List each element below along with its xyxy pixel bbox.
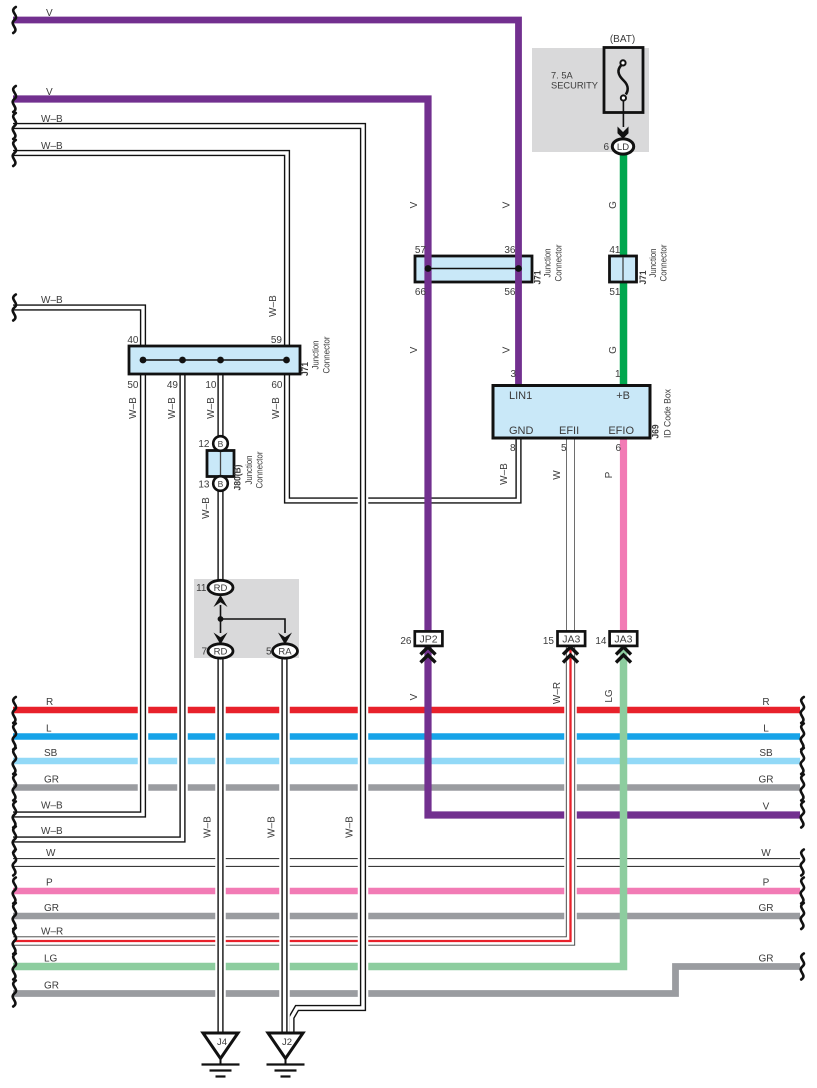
- svg-text:B: B: [218, 479, 224, 489]
- svg-text:6: 6: [603, 142, 609, 153]
- svg-text:W–B: W–B: [167, 397, 178, 419]
- svg-text:66: 66: [415, 287, 427, 298]
- svg-text:W–B: W–B: [267, 816, 278, 838]
- connector box JP2: [415, 631, 443, 646]
- svg-text:W: W: [46, 848, 56, 859]
- svg-text:W–R: W–R: [552, 682, 563, 704]
- connector circle B pin13: [213, 476, 228, 491]
- svg-text:W–B: W–B: [201, 497, 212, 519]
- svg-text:8: 8: [510, 443, 516, 454]
- svg-text:W–B: W–B: [128, 397, 139, 419]
- svg-text:7: 7: [201, 647, 207, 658]
- svg-text:LG: LG: [44, 954, 58, 965]
- rotated wire labels top: [409, 201, 619, 354]
- ground J2: [267, 1033, 305, 1077]
- wire W-B pin40 branch: [13, 308, 143, 375]
- junction connector J80(B) box: [207, 451, 234, 477]
- left bus labels: [41, 697, 63, 992]
- ID code box J69: [493, 386, 650, 439]
- svg-text:RD: RD: [214, 583, 228, 594]
- svg-text:5: 5: [561, 443, 567, 454]
- wire W from EFII: [570, 438, 572, 631]
- relay internal: arrow up pin11: [214, 595, 228, 607]
- svg-text:SB: SB: [44, 748, 58, 759]
- svg-text:V: V: [46, 8, 53, 19]
- pin numbers center J71: [415, 245, 516, 298]
- svg-text:W–B: W–B: [203, 816, 214, 838]
- svg-text:P: P: [46, 878, 53, 889]
- svg-text:Junction: Junction: [244, 456, 255, 485]
- svg-text:Junction: Junction: [543, 249, 554, 278]
- svg-text:J80(B): J80(B): [233, 465, 244, 491]
- chevrons JP2: [421, 647, 436, 663]
- wire GR bottom jog: [13, 967, 800, 994]
- connector oval RD pin11: [208, 580, 233, 594]
- svg-text:57: 57: [415, 245, 427, 256]
- wire W-B oval7 to ground J4: [220, 658, 222, 1033]
- wire P from EFIO: [620, 438, 627, 631]
- svg-text:V: V: [409, 693, 420, 700]
- svg-text:41: 41: [609, 245, 621, 256]
- pin numbers connectors: [196, 142, 609, 658]
- svg-text:56: 56: [504, 287, 516, 298]
- svg-text:GR: GR: [759, 954, 774, 965]
- svg-text:G: G: [608, 346, 619, 354]
- svg-text:(BAT): (BAT): [610, 34, 635, 45]
- svg-text:Junction: Junction: [648, 249, 659, 278]
- svg-text:10: 10: [205, 380, 217, 391]
- svg-text:3: 3: [510, 369, 516, 380]
- svg-text:50: 50: [127, 380, 139, 391]
- label W-B bus2: [41, 141, 63, 152]
- wire W-R: [13, 646, 571, 941]
- svg-text:GR: GR: [44, 775, 59, 786]
- svg-text:R: R: [46, 697, 53, 708]
- chevrons JA3 pin15: [563, 647, 578, 663]
- rotated component names: [233, 245, 674, 491]
- svg-text:V: V: [46, 87, 53, 98]
- svg-text:7. 5A: 7. 5A: [551, 71, 574, 81]
- connector box JA3 pin14: [610, 631, 638, 646]
- wire W-B top to ground J2: [13, 126, 363, 1033]
- svg-text:V: V: [502, 201, 513, 208]
- svg-text:40: 40: [127, 335, 139, 346]
- svg-text:Connector: Connector: [659, 245, 670, 282]
- svg-text:GR: GR: [44, 903, 59, 914]
- svg-text:59: 59: [271, 335, 283, 346]
- svg-text:RD: RD: [214, 647, 228, 658]
- svg-text:W–B: W–B: [345, 816, 356, 838]
- right bus labels: [759, 697, 774, 965]
- svg-text:Connector: Connector: [554, 245, 565, 282]
- fuse 7.5A SECURITY: [604, 48, 643, 128]
- svg-text:GR: GR: [759, 903, 774, 914]
- svg-text:J69: J69: [651, 425, 662, 439]
- svg-text:EFII: EFII: [559, 425, 579, 437]
- label W-B bus1: [41, 114, 63, 125]
- svg-text:60: 60: [271, 380, 283, 391]
- svg-text:G: G: [608, 201, 619, 209]
- svg-text:V: V: [502, 346, 513, 353]
- svg-text:51: 51: [609, 287, 621, 298]
- svg-text:W–B: W–B: [41, 801, 63, 812]
- svg-text:W–B: W–B: [41, 826, 63, 837]
- arrow into LD: [618, 127, 629, 139]
- junction connector J71 (center) box: [415, 256, 532, 282]
- svg-text:ID Code Box: ID Code Box: [663, 389, 674, 438]
- svg-text:13: 13: [198, 480, 210, 491]
- svg-text:49: 49: [167, 380, 179, 391]
- svg-text:5: 5: [266, 647, 272, 658]
- svg-text:W–B: W–B: [271, 397, 282, 419]
- svg-text:Connector: Connector: [322, 337, 333, 374]
- svg-text:11: 11: [196, 583, 207, 594]
- svg-text:V: V: [409, 201, 420, 208]
- svg-text:B: B: [218, 439, 224, 449]
- label V bus1: [46, 8, 53, 19]
- relay internal wire: [221, 605, 286, 633]
- svg-text:LG: LG: [604, 689, 615, 703]
- svg-text:L: L: [763, 724, 769, 735]
- svg-text:W–B: W–B: [206, 397, 217, 419]
- connector box JA3 pin15: [558, 631, 586, 646]
- svg-text:L: L: [46, 724, 52, 735]
- pin numbers right J71: [609, 245, 621, 298]
- svg-text:J4: J4: [217, 1037, 227, 1048]
- wire G green: [623, 152, 625, 387]
- connector oval RA pin5: [273, 644, 298, 658]
- junction connector J71 (right) box: [610, 256, 637, 282]
- svg-text:R: R: [762, 697, 769, 708]
- svg-text:EFIO: EFIO: [608, 425, 634, 437]
- svg-text:GR: GR: [44, 981, 59, 992]
- svg-text:Connector: Connector: [255, 452, 266, 489]
- svg-text:15: 15: [543, 636, 555, 647]
- fuse block gray background: [532, 48, 649, 152]
- svg-text:V: V: [763, 802, 770, 813]
- wire W-B pin50: [13, 346, 143, 815]
- svg-text:J71: J71: [300, 361, 311, 376]
- wire P bus: [13, 888, 800, 895]
- pin numbers left J71: [127, 335, 283, 391]
- svg-text:W–B: W–B: [268, 295, 279, 317]
- wire R bus: [13, 707, 800, 714]
- svg-text:W–B: W–B: [499, 463, 510, 485]
- svg-text:RA: RA: [278, 647, 292, 658]
- rotated wire labels lower: [203, 682, 616, 838]
- wire L bus: [13, 733, 800, 740]
- pin numbers J69: [510, 369, 622, 454]
- junction connector J71 (center) internal bus: [425, 265, 522, 272]
- svg-text:JA3: JA3: [562, 634, 580, 646]
- relay arrow down pin5: [278, 633, 292, 645]
- wire V1 battery feed: [13, 20, 519, 387]
- svg-text:Junction: Junction: [311, 341, 322, 370]
- wire GR bus 2: [13, 913, 800, 920]
- wire W-B pin49: [13, 346, 183, 840]
- svg-text:6: 6: [615, 443, 621, 454]
- relay junction dot: [218, 616, 224, 622]
- wire GR bus: [13, 784, 800, 791]
- svg-text:W: W: [552, 470, 563, 480]
- svg-text:P: P: [604, 471, 615, 478]
- svg-text:GND: GND: [509, 425, 534, 437]
- squiggle ends left: [13, 7, 16, 1007]
- svg-text:W–B: W–B: [41, 141, 63, 152]
- svg-text:JA3: JA3: [614, 634, 632, 646]
- svg-text:GR: GR: [759, 775, 774, 786]
- svg-text:14: 14: [595, 636, 607, 647]
- connector circle B pin12: [213, 436, 228, 451]
- svg-text:J2: J2: [282, 1037, 292, 1048]
- svg-text:26: 26: [400, 636, 412, 647]
- svg-text:JP2: JP2: [420, 634, 438, 646]
- svg-text:W–R: W–R: [41, 927, 63, 938]
- junction connector J71 (left) box: [129, 346, 300, 374]
- svg-text:W: W: [761, 848, 771, 859]
- connector oval RD pin7: [208, 644, 233, 658]
- relay arrow down pin7: [214, 633, 228, 645]
- chevrons JA3 pin14: [616, 647, 631, 663]
- svg-text:36: 36: [504, 245, 516, 256]
- fuse labels: [551, 34, 635, 91]
- wire SB bus: [13, 758, 800, 765]
- relay block gray background: [194, 579, 299, 658]
- label W-B bus3: [41, 295, 63, 306]
- svg-text:V: V: [409, 346, 420, 353]
- connector oval LD pin6: [612, 139, 633, 154]
- svg-text:1: 1: [615, 369, 621, 380]
- wire W-B pin59/60 to GND: [13, 153, 519, 501]
- svg-text:SB: SB: [759, 748, 773, 759]
- wire W-B pin10: [220, 346, 222, 580]
- svg-text:W–B: W–B: [41, 295, 63, 306]
- ground J4: [202, 1033, 240, 1077]
- svg-text:P: P: [763, 878, 770, 889]
- svg-text:LIN1: LIN1: [509, 390, 532, 402]
- svg-text:+B: +B: [616, 390, 630, 402]
- wire LG: [13, 646, 624, 967]
- svg-text:W–B: W–B: [41, 114, 63, 125]
- wire W-B oval5 to ground J2: [284, 658, 286, 1033]
- svg-text:SECURITY: SECURITY: [551, 81, 598, 91]
- wire W bus: [13, 862, 800, 864]
- rotated wire labels middle: [128, 295, 615, 519]
- squiggle ends right: [801, 697, 804, 980]
- wire V2 main violet: [13, 99, 800, 815]
- svg-text:LD: LD: [617, 142, 629, 153]
- label V bus2: [46, 87, 53, 98]
- svg-text:12: 12: [198, 439, 210, 450]
